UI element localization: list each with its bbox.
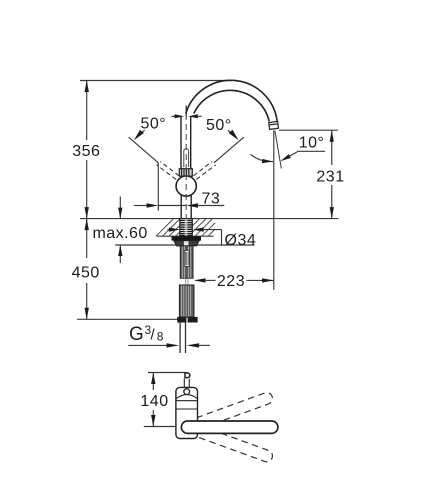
wire top reference line [80, 80, 232, 82]
lever tilted position right dashes [193, 162, 215, 180]
label G3/8 [129, 323, 164, 345]
top view swivel dashed pill lower [196, 426, 274, 464]
spout curve outer [186, 80, 277, 121]
svg-text:73: 73 [202, 191, 221, 208]
angle 10 arc left [251, 154, 273, 163]
deck hatching [156, 219, 215, 237]
top view faucet body [176, 387, 198, 438]
top view spout pill [181, 421, 278, 433]
faucet center dashed axis [185, 114, 187, 218]
angle 10 right arrow [280, 154, 291, 161]
spout curve inner [194, 90, 269, 121]
svg-text:Ø34: Ø34 [225, 232, 257, 249]
faucet threaded shank [180, 219, 193, 237]
dimension 140 line [151, 373, 155, 427]
svg-text:50°: 50° [206, 117, 232, 134]
faucet mounting flange [172, 236, 202, 240]
svg-text:max.60: max.60 [93, 225, 148, 242]
faucet supply hose lower [179, 285, 194, 317]
dimension diameter 34 leader [167, 227, 221, 245]
spout aerator [269, 121, 279, 129]
dimension 73 [134, 203, 225, 207]
lever swing arrows at top [172, 114, 202, 118]
node deck bottom line [157, 235, 214, 237]
faucet body below ball [181, 195, 191, 219]
wire top view upper reference line [148, 372, 187, 374]
wire outlet reference line [279, 129, 338, 131]
dimension 356 line [85, 81, 89, 219]
dimension G3/8 [128, 343, 210, 347]
dimension 223 [194, 278, 274, 282]
svg-text:450: 450 [72, 265, 100, 282]
top view body line 2 [176, 408, 198, 410]
faucet lever neck tube [181, 116, 191, 169]
top view lever tab [184, 373, 190, 387]
faucet supply hose upper [180, 246, 193, 278]
svg-text:8: 8 [157, 330, 164, 344]
svg-text:50°: 50° [141, 116, 167, 133]
wire water stream vertical line [273, 130, 275, 290]
label 10 leader [289, 152, 297, 157]
top view dome arc [176, 395, 197, 399]
supply pipes [180, 323, 185, 354]
svg-text:231: 231 [316, 168, 344, 185]
top view swivel dashed pill upper [196, 391, 274, 429]
svg-text:140: 140 [140, 393, 168, 410]
angle 50 right line [214, 137, 244, 163]
angle 50 left line [129, 137, 159, 163]
top view body line 1 [176, 400, 198, 402]
wire lever tip extension line [157, 163, 159, 211]
node deck top line [80, 218, 339, 220]
faucet collar [179, 169, 192, 177]
faucet ball joint [176, 176, 196, 196]
label 50 left leader [134, 130, 145, 141]
wire top view lower reference line [144, 426, 176, 428]
lever inner slot [184, 149, 189, 167]
faucet mounting nut [174, 241, 199, 246]
wire bottom reference line [77, 318, 178, 320]
lever pin tip [185, 106, 187, 118]
svg-text:G: G [129, 324, 144, 345]
hose end fittings [177, 317, 186, 323]
svg-text:223: 223 [217, 273, 245, 290]
top view lever circle [184, 389, 190, 395]
dimension max.60 arrows [118, 197, 122, 264]
svg-text:356: 356 [72, 143, 100, 160]
svg-text:10°: 10° [299, 135, 325, 152]
wire max depth reference line [115, 244, 254, 246]
dimension 231 line [330, 130, 334, 218]
lever tilted position left dashes [157, 162, 179, 180]
hose break gap lines [186, 278, 188, 285]
dimension 450 line [85, 219, 89, 320]
label 50 right leader [228, 130, 239, 141]
wire tilted stream line 10deg [275, 131, 281, 169]
